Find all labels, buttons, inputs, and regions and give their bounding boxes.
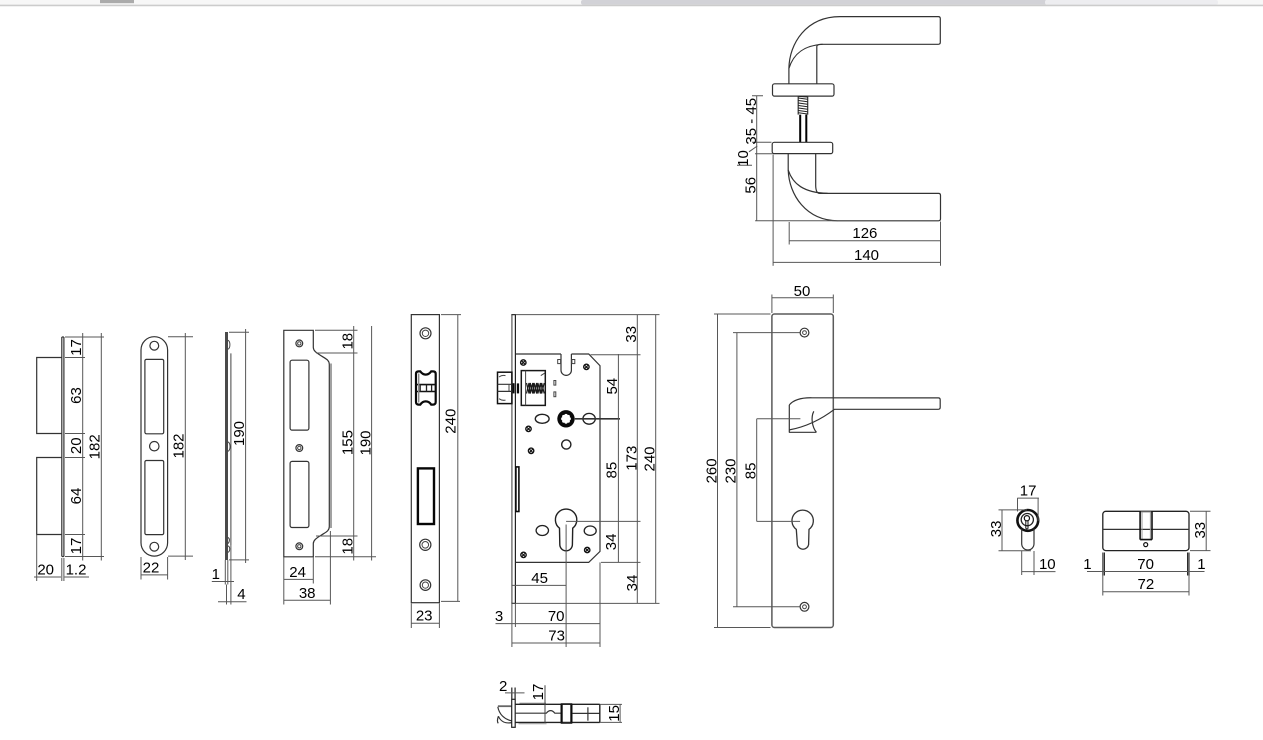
extension lines	[229, 332, 249, 560]
cylinder ring	[1017, 510, 1038, 531]
svg-text:182: 182	[87, 434, 104, 459]
72 dim line	[1103, 591, 1189, 593]
svg-text:1: 1	[212, 566, 220, 583]
escutcheon plate outline	[772, 314, 833, 628]
middle hole	[150, 442, 159, 451]
cam slot gray inner	[1141, 512, 1152, 539]
240 extensions	[441, 315, 461, 602]
svg-text:1.2: 1.2	[66, 561, 87, 578]
lock case outline	[516, 354, 600, 562]
svg-text:35 - 45: 35 - 45	[743, 98, 760, 145]
svg-text:17: 17	[1020, 483, 1037, 500]
dim line 4	[218, 601, 247, 603]
case right edge extension down	[599, 562, 601, 647]
126 extensions	[789, 222, 940, 266]
strike plate front outline	[141, 337, 168, 556]
square spindle shaft	[800, 115, 806, 143]
svg-text:63: 63	[68, 387, 85, 404]
lip outer second line	[330, 364, 332, 529]
dim line 73	[512, 642, 600, 644]
svg-text:260: 260	[703, 458, 720, 483]
cross pin line	[587, 707, 589, 720]
latch head bevel arc	[498, 707, 512, 721]
case screw bottom-right	[585, 547, 590, 552]
svg-text:17: 17	[530, 684, 547, 701]
faceplate outline	[411, 315, 439, 603]
126 dim line	[789, 240, 940, 242]
threaded spindle sides	[798, 96, 808, 115]
dim line 33/173/34	[636, 315, 638, 604]
bottom screw	[800, 602, 809, 611]
keyhole circle	[1024, 516, 1029, 521]
upper neck left line	[788, 69, 790, 84]
18/155/18 dim line	[353, 326, 355, 561]
left dim line	[756, 96, 758, 221]
section line	[544, 685, 546, 723]
182 dim line	[184, 333, 186, 560]
circle right of hub	[583, 413, 595, 424]
offset leaf line	[230, 353, 232, 545]
bolt bottom edge	[515, 721, 600, 723]
faceplate caps	[511, 315, 516, 604]
top screw hole	[150, 341, 159, 350]
latch band lines	[416, 385, 436, 392]
upper bend inner curve	[789, 44, 823, 68]
extension lines	[168, 337, 193, 556]
dim ticks left column	[752, 96, 773, 154]
svg-text:10: 10	[1039, 556, 1056, 573]
top extension to dims	[516, 314, 660, 316]
nut chamfer marks	[499, 375, 506, 400]
50 dim line	[772, 297, 833, 299]
bolt right end	[599, 704, 601, 722]
deadbolt guide slot on case edge	[516, 467, 519, 512]
23 dim line	[411, 622, 439, 624]
oval left of hub	[535, 414, 549, 423]
hub star hole	[563, 415, 570, 422]
svg-text:126: 126	[852, 225, 877, 242]
dim line 240	[655, 315, 657, 604]
euro cylinder hole	[555, 509, 576, 551]
svg-text:18: 18	[339, 538, 356, 555]
segment dimension line	[82, 333, 84, 561]
17 extensions	[1018, 498, 1039, 521]
plug circle	[1021, 514, 1033, 526]
svg-text:34: 34	[603, 534, 620, 551]
50 dim extensions	[772, 295, 833, 314]
dim line 3 and 70	[496, 623, 601, 625]
overall 182 dimension line	[100, 333, 102, 561]
bottom extension lines	[37, 535, 64, 582]
svg-text:190: 190	[231, 421, 248, 446]
svg-text:50: 50	[794, 283, 811, 300]
15 extensions	[600, 704, 622, 722]
bolt top edge	[515, 703, 600, 705]
bottom extensions	[411, 604, 439, 629]
svg-text:17: 17	[68, 538, 85, 555]
22 dim line	[141, 574, 168, 576]
bolt cutout	[145, 461, 164, 535]
svg-text:64: 64	[68, 488, 85, 505]
case screw mid2	[528, 448, 533, 453]
140 extension left	[772, 155, 774, 266]
follower hub ring	[557, 410, 574, 427]
circle below hub	[562, 440, 571, 449]
svg-text:190: 190	[358, 430, 375, 455]
svg-text:56: 56	[743, 177, 760, 194]
thread ticks	[798, 96, 807, 114]
svg-text:45: 45	[531, 570, 548, 587]
latch cutout	[145, 359, 164, 433]
svg-text:10: 10	[735, 150, 752, 167]
svg-text:85: 85	[743, 463, 760, 480]
follower slot notch	[561, 354, 571, 375]
svg-text:33: 33	[1192, 522, 1209, 539]
extension lines right	[65, 337, 104, 557]
leader for 10	[737, 146, 757, 165]
keyway slot	[1026, 520, 1028, 530]
svg-text:22: 22	[143, 560, 160, 577]
svg-text:18: 18	[339, 333, 356, 350]
tab segment light	[1045, 0, 1218, 5]
svg-text:240: 240	[443, 409, 460, 434]
svg-text:230: 230	[723, 458, 740, 483]
shim plate edge view	[225, 332, 228, 560]
45 dim line	[512, 584, 566, 586]
260 dim line	[717, 314, 719, 628]
33 dim line	[1205, 511, 1207, 550]
tab segment gray	[581, 0, 1047, 5]
70 extension bars	[1103, 553, 1189, 576]
spindle black bars at plate	[513, 383, 515, 393]
case screw top-left	[521, 360, 526, 365]
latch cutout	[290, 360, 309, 430]
screw top	[420, 328, 431, 339]
cam slot sides	[1140, 511, 1152, 539]
notch tab right	[572, 360, 575, 364]
case bottom boundary extension	[601, 561, 641, 563]
dim line 1.2 bottom	[65, 576, 90, 578]
rose 2	[772, 142, 833, 153]
svg-text:24: 24	[289, 564, 306, 581]
2 dim line	[505, 692, 525, 694]
top clip bump	[228, 340, 230, 349]
svg-text:173: 173	[624, 446, 641, 471]
svg-text:20: 20	[37, 561, 54, 578]
svg-text:140: 140	[854, 247, 879, 264]
deadbolt cutout	[418, 468, 434, 524]
faceplate section	[512, 699, 516, 727]
screw hole middle	[296, 445, 303, 452]
cylinder center vertical extension	[565, 525, 567, 648]
140 dim line	[773, 261, 940, 263]
faceplate ext up	[512, 688, 515, 700]
bottom extensions	[141, 557, 168, 580]
33 dim line	[1001, 510, 1003, 551]
handle bottom edge	[789, 431, 817, 433]
svg-text:33: 33	[988, 521, 1005, 538]
faceplate edge gray line	[511, 315, 513, 604]
bottom extensions	[225, 545, 231, 605]
upper lever bar and bend	[789, 17, 940, 69]
260 extensions	[714, 314, 771, 628]
latch front	[416, 371, 436, 404]
faceplate edge black line	[514, 315, 516, 604]
handle top contour and lever	[789, 398, 940, 430]
svg-text:4: 4	[237, 586, 245, 603]
10 dim line	[1022, 571, 1056, 573]
collar bold sides	[562, 704, 572, 724]
small rect hole upper	[554, 381, 556, 386]
svg-text:85: 85	[604, 462, 621, 479]
browser top strip background	[0, 0, 1263, 5]
body mid line	[1103, 528, 1189, 530]
10 extensions	[1022, 551, 1034, 575]
17 dim line	[1017, 497, 1039, 499]
latch band dividers	[420, 385, 431, 392]
cylinder center horizontal extension	[566, 520, 640, 522]
240 dim line	[457, 315, 459, 602]
bolt mid line with hump	[515, 711, 561, 714]
latch inner shade line	[418, 374, 420, 403]
33 extensions	[999, 510, 1032, 551]
bottom extensions	[284, 531, 331, 605]
screw bottom	[420, 580, 431, 591]
strike box side view plate edge	[62, 337, 64, 557]
230 dim line	[736, 333, 738, 607]
latch head crescent	[497, 716, 511, 723]
housing collar line	[525, 371, 527, 406]
nut band divider	[508, 384, 510, 391]
cylinder body profile	[1022, 529, 1034, 550]
33 extensions right	[1190, 511, 1211, 550]
fixing screw circle	[1144, 543, 1148, 547]
euro centerline extension	[757, 520, 800, 522]
right extension lines	[315, 330, 376, 557]
bottom edge extension left	[755, 220, 838, 222]
follower housing block	[521, 371, 545, 406]
case screw top-right	[584, 364, 589, 369]
svg-text:54: 54	[604, 378, 621, 395]
svg-text:15: 15	[606, 705, 623, 722]
svg-text:1: 1	[1197, 556, 1205, 573]
bottom screw hole	[150, 542, 159, 551]
hub centerline extension	[575, 418, 620, 420]
spindle nut outside	[498, 372, 512, 403]
collar caps	[561, 704, 572, 724]
upper neck right line with arc	[817, 44, 821, 84]
38 dim line	[284, 599, 331, 601]
handle left edge	[788, 405, 790, 432]
svg-text:17: 17	[68, 339, 85, 356]
svg-text:23: 23	[416, 608, 433, 625]
screw hole top	[296, 340, 303, 347]
right mid line	[572, 712, 600, 714]
cylinder body side	[1103, 511, 1189, 550]
screw mid	[420, 539, 431, 550]
dust box upper	[37, 358, 62, 434]
dim line 1	[212, 581, 234, 583]
svg-text:72: 72	[1138, 576, 1155, 593]
lower bend inner curve	[788, 170, 827, 193]
72 extensions	[1103, 576, 1189, 596]
bolt bottom gray shadow	[519, 723, 547, 725]
15 dim line	[619, 704, 621, 722]
handle neck arc	[812, 411, 816, 432]
spring coil	[527, 383, 545, 394]
lower neck left line	[787, 154, 789, 170]
svg-text:182: 182	[171, 433, 188, 458]
svg-text:73: 73	[548, 627, 565, 644]
strike plate 2 outline with folded lip	[284, 330, 330, 557]
85 dim line	[756, 419, 758, 522]
oval left of cylinder	[536, 526, 548, 536]
svg-text:34: 34	[624, 575, 641, 592]
euro hole	[792, 510, 813, 549]
190 dim line	[371, 326, 373, 561]
svg-text:33: 33	[623, 326, 640, 343]
dim line 54/85/34	[617, 354, 619, 562]
latch head top line	[498, 705, 512, 707]
svg-text:20: 20	[68, 437, 85, 454]
190 dim line	[245, 329, 247, 563]
screw hole bottom	[296, 543, 303, 550]
faceplate bottom extensions	[512, 604, 516, 648]
svg-text:240: 240	[642, 446, 659, 471]
svg-text:1: 1	[1083, 556, 1091, 573]
toolbar bottom border	[0, 4, 1263, 6]
bolt top gray double	[520, 702, 547, 704]
notch tab left	[558, 360, 561, 364]
svg-text:70: 70	[1137, 556, 1154, 573]
lower neck right line with arc	[816, 154, 820, 194]
svg-text:38: 38	[299, 585, 316, 602]
rose 1	[773, 84, 835, 96]
bottom clip bump	[228, 538, 230, 553]
housing chamfer mark	[541, 373, 545, 375]
svg-text:2: 2	[499, 678, 507, 695]
nut mid band	[498, 384, 512, 391]
middle clip bump	[228, 442, 230, 452]
case screw mid1	[526, 426, 531, 431]
230 extensions	[733, 333, 800, 607]
svg-text:3: 3	[495, 608, 503, 625]
handle centerline extension	[757, 418, 801, 420]
bottom boundary extension 240	[516, 602, 660, 604]
bolt cutout	[290, 461, 309, 527]
70 dim line	[1087, 571, 1205, 573]
dim line 20 bottom	[34, 576, 61, 578]
case top boundary extension	[591, 354, 641, 356]
24 dim line	[284, 578, 314, 580]
svg-text:155: 155	[339, 430, 356, 455]
dust box lower	[37, 458, 62, 535]
case screw bottom-left	[521, 552, 526, 557]
scrollbar thumb segment	[100, 0, 134, 3]
svg-text:70: 70	[548, 608, 565, 625]
lower lever bar and bend	[788, 170, 940, 221]
small rect hole lower	[554, 392, 556, 397]
oval right of cylinder	[584, 526, 596, 535]
top screw	[800, 328, 809, 337]
